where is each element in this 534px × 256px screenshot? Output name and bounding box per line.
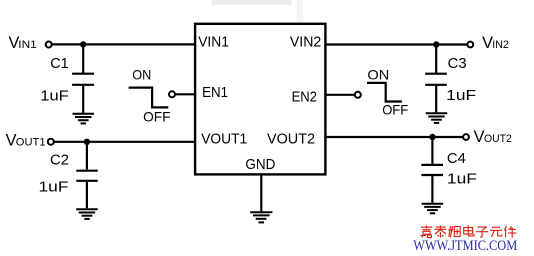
svg-text:1uF: 1uF (447, 170, 477, 187)
svg-text:GND: GND (245, 157, 275, 173)
svg-text:1uF: 1uF (40, 87, 69, 104)
svg-text:V: V (474, 128, 485, 146)
svg-text:IN1: IN1 (18, 39, 37, 51)
svg-text:C2: C2 (50, 151, 69, 168)
svg-text:VIN2: VIN2 (290, 35, 321, 51)
svg-text:VOUT1: VOUT1 (201, 132, 247, 148)
svg-text:VOUT2: VOUT2 (267, 132, 315, 148)
svg-text:C3: C3 (448, 55, 467, 72)
svg-text:OUT2: OUT2 (484, 133, 512, 145)
svg-text:1uF: 1uF (39, 178, 69, 195)
svg-text:OFF: OFF (143, 110, 170, 125)
svg-text:EN1: EN1 (202, 85, 228, 101)
svg-text:C4: C4 (447, 150, 466, 167)
svg-text:EN2: EN2 (292, 89, 317, 105)
svg-text:OFF: OFF (382, 102, 408, 117)
svg-text:ON: ON (132, 68, 151, 83)
svg-text:OUT1: OUT1 (16, 136, 46, 148)
svg-text:C1: C1 (50, 55, 68, 72)
svg-text:IN2: IN2 (492, 39, 509, 51)
svg-text:ON: ON (367, 68, 389, 83)
svg-text:WWW.JTMIC.COM: WWW.JTMIC.COM (413, 238, 517, 254)
svg-text:1uF: 1uF (446, 87, 476, 104)
svg-text:VIN1: VIN1 (198, 35, 229, 51)
